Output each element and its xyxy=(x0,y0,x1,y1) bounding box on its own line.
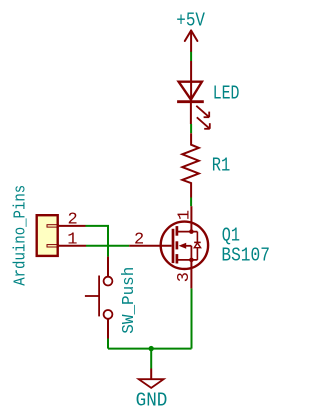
svg-text:+5V: +5V xyxy=(176,10,205,32)
svg-text:LED: LED xyxy=(213,83,240,105)
svg-text:Arduino_Pins: Arduino_Pins xyxy=(11,185,30,286)
svg-text:BS107: BS107 xyxy=(221,245,270,267)
svg-text:GND: GND xyxy=(136,390,168,412)
svg-text:2: 2 xyxy=(67,210,77,229)
svg-text:3: 3 xyxy=(175,272,194,282)
svg-text:SW_Push: SW_Push xyxy=(120,267,139,334)
svg-text:1: 1 xyxy=(176,210,195,220)
svg-text:1: 1 xyxy=(67,231,77,250)
svg-text:R1: R1 xyxy=(212,154,231,176)
svg-text:2: 2 xyxy=(134,230,144,249)
svg-text:Q1: Q1 xyxy=(222,225,240,247)
